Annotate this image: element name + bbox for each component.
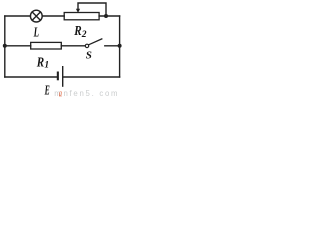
svg-text:2: 2 [81,30,87,40]
wire switch to right junction [105,45,120,47]
resistor R1 body [31,42,62,49]
junction node right [118,44,122,48]
lamp L symbol [30,10,42,22]
wire middle branch left [5,45,31,47]
svg-text:a: a [59,88,62,99]
rheostat slider arrowhead [76,9,80,13]
svg-text:R: R [73,24,81,39]
battery E negative plate (short) [57,72,59,81]
wire R2 right to corner [99,15,120,17]
wire bottom right to battery [63,76,120,78]
watermark manfen5.com [54,88,117,99]
wire lamp to R2 [42,15,64,17]
wire battery to bottom left [5,76,57,78]
switch S symbol [85,39,102,48]
wire left vertical [4,16,6,77]
svg-text:R: R [36,56,44,71]
svg-text:L: L [33,26,39,41]
svg-text:S: S [86,49,92,61]
svg-text:1: 1 [44,61,49,71]
junction node left [3,44,7,48]
junction node top-right [104,14,108,18]
svg-text:E: E [44,84,50,99]
battery E positive plate (long) [62,66,63,87]
rheostat slider wire top [78,3,106,16]
wire R1 to switch [61,45,85,47]
wire right vertical [119,16,121,77]
wire top-left segment [5,15,31,17]
rheostat R2 body [64,13,99,20]
